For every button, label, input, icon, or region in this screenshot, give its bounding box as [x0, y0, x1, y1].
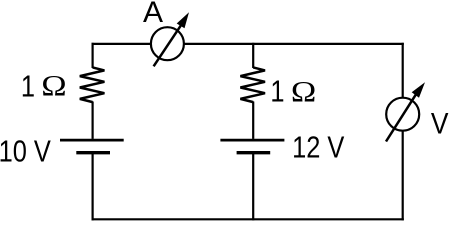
- wire: right branch top lead (corner to voltmeter): [402, 43, 404, 98]
- node: bottom T-junction of middle branch: [250, 216, 257, 222]
- battery B1 10 V (left branch): [60, 140, 124, 153]
- label R2 value 1 Ω: [270, 74, 316, 109]
- label R1 value 1 Ω: [21, 68, 67, 103]
- wire: bottom segment: [92, 218, 404, 220]
- wire: right branch bottom lead: [402, 132, 404, 221]
- ammeter A: [151, 12, 189, 66]
- wire: left branch between resistor and battery: [91, 102, 93, 139]
- svg-text:V: V: [431, 106, 449, 140]
- wire: top segment from ammeter to top-right corner: [183, 43, 403, 45]
- svg-text:1: 1: [270, 74, 284, 109]
- wire: top-left segment (corner to ammeter): [92, 43, 152, 45]
- wire: left branch top lead: [91, 43, 93, 68]
- svg-text:10 V: 10 V: [0, 134, 51, 169]
- voltmeter V: [386, 82, 425, 141]
- wire: middle branch top lead: [252, 43, 254, 68]
- wire: middle branch between resistor and battery: [252, 102, 254, 139]
- svg-text:Ω: Ω: [291, 75, 316, 109]
- resistor R2 1 Ohm (middle branch): [240, 67, 265, 102]
- wire: middle branch bottom lead: [252, 153, 254, 221]
- wire: left branch bottom lead: [91, 153, 93, 221]
- svg-text:12 V: 12 V: [292, 130, 344, 165]
- svg-text:Ω: Ω: [41, 68, 66, 102]
- resistor R1 1 Ohm (left branch): [80, 67, 105, 102]
- node: top T-junction of middle branch: [250, 41, 257, 47]
- svg-text:A: A: [143, 0, 163, 29]
- battery B2 12 V (middle branch): [220, 140, 284, 153]
- svg-text:1: 1: [21, 69, 35, 104]
